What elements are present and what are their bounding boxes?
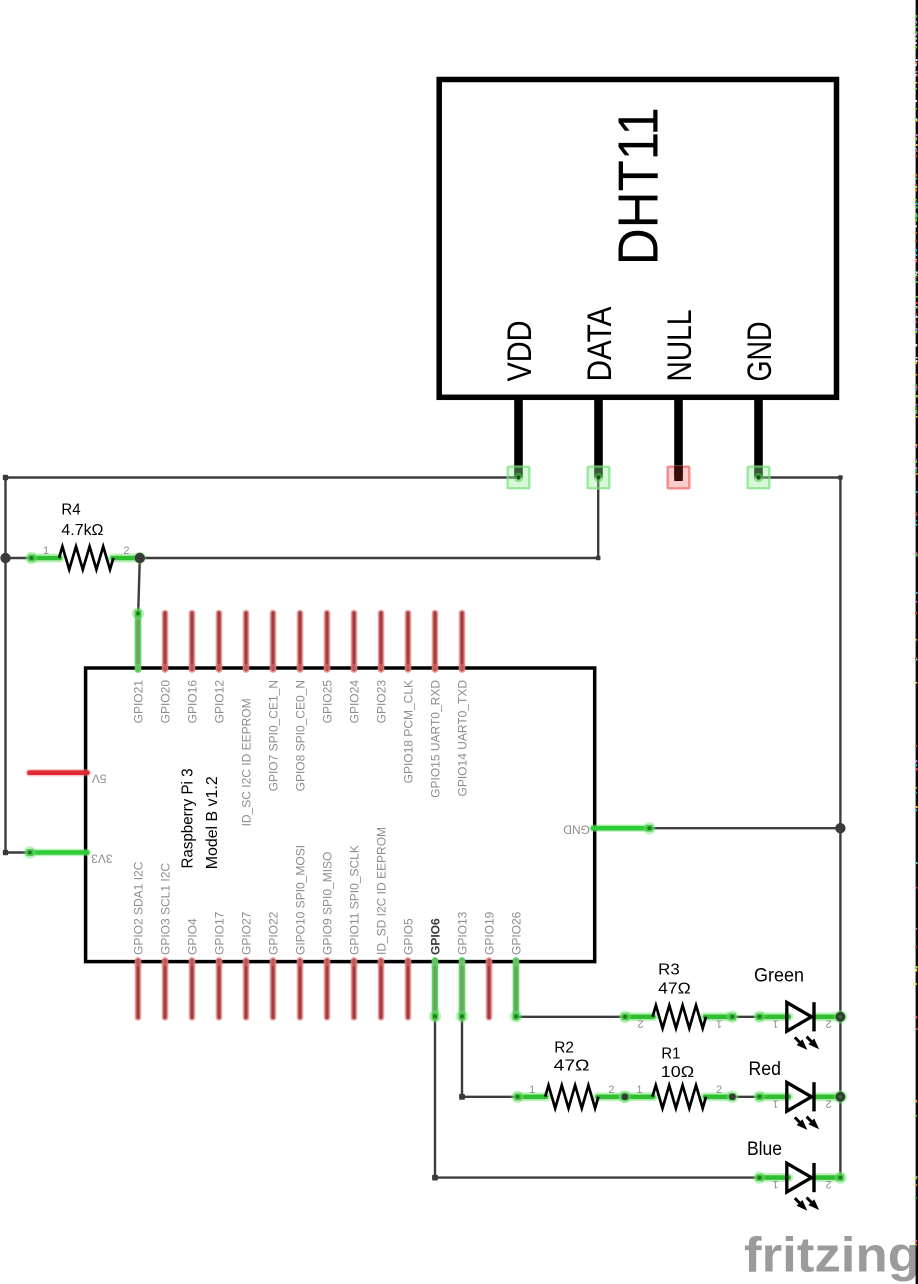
svg-text:DATA: DATA [581, 306, 619, 381]
resistor R3 leg 2 [705, 1012, 732, 1021]
svg-text:GPIO2 SDA1 I2C: GPIO2 SDA1 I2C [132, 861, 146, 955]
svg-text:GPIO19: GPIO19 [483, 911, 497, 955]
RPi top pin GPIO20 [162, 613, 169, 670]
RPi terminal GPIO26 (connected) [510, 1010, 522, 1022]
svg-text:GPIO27: GPIO27 [240, 911, 254, 955]
wire left rail to 3V3 pin [6, 851, 30, 853]
bendpoint bottom-left corner (3V3) [3, 850, 8, 855]
LED Green cathode bar [812, 1002, 815, 1031]
RPi bottom pin edge square GIPO10 SPI0_MOSI [297, 960, 304, 967]
svg-text:Raspberry Pi 3: Raspberry Pi 3 [180, 769, 197, 869]
svg-text:GPIO7 SPI0_CE1_N: GPIO7 SPI0_CE1_N [267, 680, 281, 791]
svg-text:GND: GND [563, 823, 590, 837]
LED Green terminal 1 [753, 1011, 765, 1023]
svg-text:GPIO5: GPIO5 [402, 918, 416, 955]
svg-text:5V: 5V [92, 772, 107, 786]
svg-text:1: 1 [772, 1178, 778, 1190]
RPi bottom pin GPIO9 SPI0_MISO [324, 960, 331, 1017]
RPi top pin edge square ID_SC I2C ID EEPROM [243, 664, 250, 671]
svg-text:GPIO15 UART0_RXD: GPIO15 UART0_RXD [429, 680, 443, 798]
wire R1 pin 2 to red LED [732, 1096, 759, 1098]
RPi bottom pin edge square GPIO17 [216, 960, 223, 967]
Raspberry Pi 3 body U2 [86, 668, 595, 962]
bendpoint GPIO13 corner [459, 1094, 465, 1100]
DHT11 pin leg DATA [594, 398, 603, 478]
RPi top pin edge square GPIO25 [324, 664, 331, 671]
svg-text:VDD: VDD [501, 321, 539, 382]
RPi top pin GPIO14 UART0_TXD [459, 613, 466, 670]
resistor R1 zigzag body [652, 1085, 706, 1108]
right edge clipped component strip [915, 0, 918, 1284]
svg-text:NULL: NULL [661, 310, 699, 382]
RPi top pin ID_SC I2C ID EEPROM [243, 613, 250, 670]
RPi top pin edge square GPIO15 UART0_RXD [432, 664, 439, 671]
svg-text:1: 1 [716, 1017, 722, 1029]
RPi bottom pin GPIO27 [243, 960, 250, 1017]
RPi bottom pin edge square GPIO11 SPI0_SCLK [351, 960, 358, 967]
svg-text:GPIO3 SCL1 I2C: GPIO3 SCL1 I2C [159, 863, 173, 955]
wire GPIO6 down [434, 1017, 436, 1178]
LED Green light arrow 1 [795, 1037, 808, 1050]
RPi bottom pin GPIO2 SDA1 I2C [135, 960, 142, 1017]
bendpoint GPIO6 corner [432, 1175, 438, 1181]
RPi top pin GPIO23 [378, 613, 385, 670]
RPi top pin edge square GPIO8 SPI0_CE0_N [297, 664, 304, 671]
resistor R3 terminal 1 [619, 1011, 631, 1023]
RPi bottom pin GPIO11 SPI0_SCLK [351, 960, 358, 1017]
RPi bottom pin edge square GPIO26 [513, 960, 520, 967]
RPi right pin GND [593, 825, 650, 832]
RPi top pin edge square GPIO21 [135, 664, 142, 671]
RPi top pin GPIO24 [351, 613, 358, 670]
LED Red light arrow 1 [795, 1117, 808, 1130]
svg-text:GPIO4: GPIO4 [186, 918, 200, 955]
LED Blue terminal 1 [753, 1171, 765, 1183]
RPi terminal GPIO13 (connected) [456, 1010, 468, 1022]
resistor R4 terminal 1 [25, 552, 37, 564]
resistor R4 leg 2 [112, 554, 139, 563]
LED Red terminal 1 [753, 1091, 765, 1103]
RPi top pin GPIO12 [216, 613, 223, 670]
junction R4 pin 2 / DATA / GPIO21 [135, 553, 145, 563]
RPi top pin GPIO15 UART0_RXD [432, 613, 439, 670]
LED Green leg 2 [814, 1012, 840, 1021]
resistor R2 leg 1 [518, 1092, 547, 1101]
svg-text:47Ω: 47Ω [554, 1058, 590, 1075]
svg-text:10Ω: 10Ω [661, 1064, 694, 1081]
RPi bottom pin GPIO6 [432, 960, 439, 1017]
LED Blue triangle (anode) [787, 1163, 812, 1192]
RPi top pin GPIO8 SPI0_CE0_N [297, 613, 304, 670]
RPi bottom pin GPIO22 [270, 960, 277, 1017]
RPi bottom pin edge square GPIO4 [189, 960, 196, 967]
RPi terminal 3V3 (connected) [24, 846, 36, 858]
DHT11 pin leg GND [754, 398, 763, 478]
svg-text:2: 2 [716, 1084, 722, 1096]
svg-text:R2: R2 [554, 1039, 574, 1056]
svg-text:2: 2 [608, 1084, 614, 1096]
svg-text:2: 2 [638, 1017, 644, 1029]
RPi terminal GPIO6 (connected) [429, 1010, 441, 1022]
svg-text:2: 2 [825, 1178, 831, 1190]
svg-text:GPIO24: GPIO24 [348, 680, 362, 724]
junction left rail / R4 pin 1 [0, 553, 10, 563]
wire R4 junction down to GPIO21 [138, 558, 140, 613]
junction right rail / green LED cathode [834, 1010, 847, 1023]
wire DHT11 GND to right rail corner [759, 476, 841, 478]
RPi top pin edge square GPIO20 [162, 664, 169, 671]
RPi top pin edge square GPIO24 [351, 664, 358, 671]
terminal blue LED cathode / rail end [834, 1171, 846, 1183]
svg-text:Red: Red [749, 1059, 781, 1080]
svg-text:GIPO10 SPI0_MOSI: GIPO10 SPI0_MOSI [294, 845, 308, 955]
wire left rail to R4 pin 1 [6, 557, 32, 559]
svg-text:1: 1 [636, 1084, 642, 1096]
RPi bottom pin edge square GPIO2 SDA1 I2C [135, 960, 142, 967]
RPi top pin GPIO25 [324, 613, 331, 670]
RPi top pin edge square GPIO12 [216, 664, 223, 671]
svg-text:GPIO18 PCM_CLK: GPIO18 PCM_CLK [402, 680, 416, 783]
LED Red leg 2 [814, 1092, 840, 1101]
RPi bottom pin edge square ID_SD I2C ID EEPROM [378, 960, 385, 967]
svg-text:2: 2 [825, 1017, 831, 1029]
resistor R2 terminal 2 [619, 1091, 631, 1103]
resistor R2 leg 2 [597, 1092, 624, 1101]
bendpoint DATA corner [596, 556, 601, 561]
resistor R1 terminal 2 [726, 1091, 738, 1103]
RPi top pin GPIO21 [135, 613, 142, 670]
svg-text:GPIO12: GPIO12 [213, 680, 227, 724]
resistor R4 leg 1 [31, 554, 60, 563]
LED Blue leg 1 [759, 1173, 788, 1182]
svg-text:1: 1 [772, 1097, 778, 1109]
LED Green triangle (anode) [787, 1002, 812, 1031]
resistor R3 leg 1 [625, 1012, 654, 1021]
RPi bottom pin edge square GPIO27 [243, 960, 250, 967]
junction right rail / red LED cathode [834, 1090, 847, 1103]
svg-text:1: 1 [529, 1084, 535, 1096]
RPi bottom pin GPIO26 [513, 960, 520, 1017]
RPi top pin edge square GPIO14 UART0_TXD [459, 664, 466, 671]
svg-text:4.7kΩ: 4.7kΩ [61, 522, 103, 539]
DHT11 terminal DATA (connected, green) [586, 465, 611, 490]
RPi top pin GPIO16 [189, 613, 196, 670]
svg-text:3V3: 3V3 [91, 851, 113, 865]
svg-text:GPIO11 SPI0_SCLK: GPIO11 SPI0_SCLK [348, 845, 362, 955]
wire DATA corner up to DHT11 DATA pin [597, 478, 599, 558]
LED Red triangle (anode) [787, 1082, 812, 1111]
RPi bottom pin GPIO17 [216, 960, 223, 1017]
LED Green leg 1 [759, 1012, 788, 1021]
RPi top pin GPIO18 PCM_CLK [405, 613, 412, 670]
resistor R3 terminal 2 [726, 1011, 738, 1023]
LED Blue light arrow 2 [807, 1198, 820, 1211]
svg-text:1: 1 [772, 1017, 778, 1029]
RPi top pin GPIO7 SPI0_CE1_N [270, 613, 277, 670]
resistor R2 zigzag body [545, 1085, 598, 1108]
resistor R2 terminal 1 [511, 1091, 523, 1103]
wire left rail vertical (VDD to 3V3) [4, 478, 6, 853]
svg-text:ID_SD I2C ID EEPROM: ID_SD I2C ID EEPROM [375, 827, 389, 955]
RPi bottom pin edge square GPIO19 [486, 960, 493, 967]
svg-text:ID_SC I2C ID EEPROM: ID_SC I2C ID EEPROM [240, 698, 254, 826]
resistor R4 zigzag body [59, 547, 113, 570]
svg-text:GPIO22: GPIO22 [267, 911, 281, 955]
RPi terminal GND (connected) [643, 822, 655, 834]
RPi bottom pin edge square GPIO3 SCL1 I2C [162, 960, 169, 967]
DHT11 sensor body U1 [439, 80, 836, 398]
resistor R4 terminal 2 [134, 552, 146, 564]
wire R4 pin 2 to DATA corner [140, 557, 598, 559]
svg-text:GPIO16: GPIO16 [186, 680, 200, 724]
svg-text:GPIO20: GPIO20 [159, 680, 173, 724]
svg-text:Green: Green [754, 966, 804, 987]
svg-text:GPIO23: GPIO23 [375, 680, 389, 724]
LED Red leg 1 [759, 1092, 788, 1101]
svg-text:fritzing: fritzing [744, 1229, 918, 1283]
RPi bottom pin GPIO19 [486, 960, 493, 1017]
DHT11 terminal VDD (connected, green) [506, 465, 531, 490]
svg-text:R1: R1 [661, 1045, 680, 1062]
RPi left pin 3V3 [29, 849, 87, 856]
svg-text:GPIO21: GPIO21 [132, 680, 146, 724]
RPi bottom pin edge square GPIO5 [405, 960, 412, 967]
RPi top pin edge square GPIO18 PCM_CLK [405, 664, 412, 671]
svg-text:GPIO8 SPI0_CE0_N: GPIO8 SPI0_CE0_N [294, 680, 308, 791]
LED Red light arrow 2 [807, 1117, 820, 1130]
RPi bottom pin GPIO3 SCL1 I2C [162, 960, 169, 1017]
RPi bottom pin edge square GPIO13 [459, 960, 466, 967]
svg-text:R4: R4 [61, 502, 80, 519]
RPi top pin edge square GPIO7 SPI0_CE1_N [270, 664, 277, 671]
RPi left pin 5V [29, 769, 87, 776]
wire GPIO13 corner to R2 [462, 1096, 518, 1098]
resistor R1 leg 1 [625, 1092, 654, 1101]
resistor R1 leg 2 [705, 1092, 732, 1101]
svg-text:1: 1 [43, 545, 49, 557]
wire RPi GND pin to right rail [650, 827, 840, 829]
svg-text:2: 2 [123, 545, 129, 557]
junction right rail / RPi GND [835, 823, 845, 833]
bendpoint right rail top corner [838, 475, 843, 480]
wire VDD rail top: DHT11 VDD to left rail [6, 476, 518, 478]
RPi bottom pin GPIO5 [405, 960, 412, 1017]
bendpoint top-left corner [3, 475, 8, 480]
wire GPIO6 corner to blue LED [435, 1176, 759, 1178]
bendpoint R1/wire junction [729, 1093, 736, 1100]
resistor R1 terminal 1 [619, 1091, 631, 1103]
RPi bottom pin ID_SD I2C ID EEPROM [378, 960, 385, 1017]
svg-text:GPIO17: GPIO17 [213, 911, 227, 955]
wire R3 pin 1 to green LED [732, 1016, 759, 1018]
svg-text:GND: GND [741, 322, 779, 382]
DHT11 terminal GND (connected, green) [746, 465, 771, 490]
svg-text:GPIO9 SPI0_MISO: GPIO9 SPI0_MISO [321, 852, 335, 955]
svg-text:2: 2 [825, 1097, 831, 1109]
LED Green light arrow 2 [807, 1037, 820, 1050]
RPi bottom pin edge square GPIO6 [432, 960, 439, 967]
svg-text:GPIO25: GPIO25 [321, 680, 335, 724]
RPi top pin edge square GPIO16 [189, 664, 196, 671]
RPi bottom pin GIPO10 SPI0_MOSI [297, 960, 304, 1017]
svg-text:R3: R3 [658, 962, 680, 979]
svg-text:GPIO6: GPIO6 [429, 918, 443, 955]
RPi bottom pin GPIO4 [189, 960, 196, 1017]
svg-text:GPIO14 UART0_TXD: GPIO14 UART0_TXD [456, 680, 470, 797]
wire right GND rail vertical [839, 478, 841, 1178]
RPi terminal GPIO21 (connected) [132, 607, 144, 619]
DHT11 pin leg VDD [514, 398, 523, 478]
LED Red cathode bar [812, 1082, 815, 1111]
RPi bottom pin GPIO13 [459, 960, 466, 1017]
svg-text:Blue: Blue [747, 1139, 782, 1160]
LED Blue cathode bar [812, 1163, 815, 1192]
wire GPIO13 down [461, 1017, 463, 1097]
LED Blue leg 2 [814, 1173, 840, 1182]
DHT11 pin leg NULL [674, 398, 683, 478]
wire GPIO26 to R3 [516, 1016, 625, 1018]
svg-text:DHT11: DHT11 [606, 107, 670, 265]
resistor R3 zigzag body [653, 1005, 706, 1028]
DHT11 terminal NULL (unconnected, red) [666, 465, 691, 490]
RPi bottom pin edge square GPIO9 SPI0_MISO [324, 960, 331, 967]
svg-text:GPIO13: GPIO13 [456, 911, 470, 955]
svg-text:47Ω: 47Ω [658, 981, 691, 998]
RPi bottom pin edge square GPIO22 [270, 960, 277, 967]
LED Blue light arrow 1 [795, 1198, 808, 1211]
RPi top pin edge square GPIO23 [378, 664, 385, 671]
bendpoint R2/R1 junction [621, 1093, 628, 1100]
svg-text:Model B v1.2: Model B v1.2 [204, 776, 221, 869]
svg-text:GPIO26: GPIO26 [510, 911, 524, 955]
